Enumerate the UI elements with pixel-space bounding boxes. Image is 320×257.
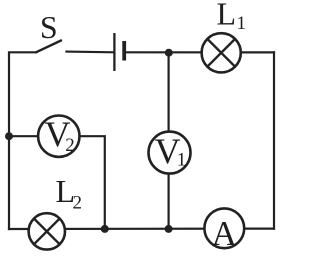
- wire left: V2-node up to top-left corner then to switch pivot: [9, 52, 36, 136]
- node junction dot left (V2 branch): [5, 132, 13, 140]
- wire right: top-right corner down to bottom wire: [273, 52, 275, 228]
- label L2: [56, 173, 83, 214]
- node junction dot top (battery/L1/V1): [165, 49, 173, 57]
- svg-text:S: S: [40, 9, 58, 45]
- lamp L1: [202, 33, 241, 72]
- battery plate long (positive): [113, 33, 115, 71]
- svg-text:A: A: [212, 214, 238, 253]
- wire left lower: V2-node down to bottom-left corner: [8, 136, 10, 229]
- battery plate short thick (negative): [122, 41, 126, 61]
- wire V2 branch: left node to corner, then down to bottom node: [9, 136, 105, 229]
- voltmeter V1: [149, 131, 191, 174]
- node junction dot bottom V2: [101, 225, 109, 233]
- wire top: switch contact through battery gap to top-right corner: [67, 50, 114, 53]
- lamp L2: [29, 213, 65, 249]
- label L1: [217, 0, 247, 34]
- svg-text:2: 2: [65, 135, 75, 156]
- svg-text:1: 1: [237, 13, 247, 34]
- node junction dot bottom V1: [165, 225, 173, 233]
- svg-text:L: L: [217, 0, 237, 31]
- switch S blade: [36, 41, 61, 53]
- wire V1 vertical: top node to bottom node: [168, 53, 170, 229]
- svg-text:1: 1: [177, 150, 187, 171]
- ammeter A: [204, 208, 244, 253]
- wire bottom: full run under L2 and A: [9, 228, 274, 231]
- voltmeter V2: [38, 114, 79, 157]
- svg-text:2: 2: [73, 193, 83, 214]
